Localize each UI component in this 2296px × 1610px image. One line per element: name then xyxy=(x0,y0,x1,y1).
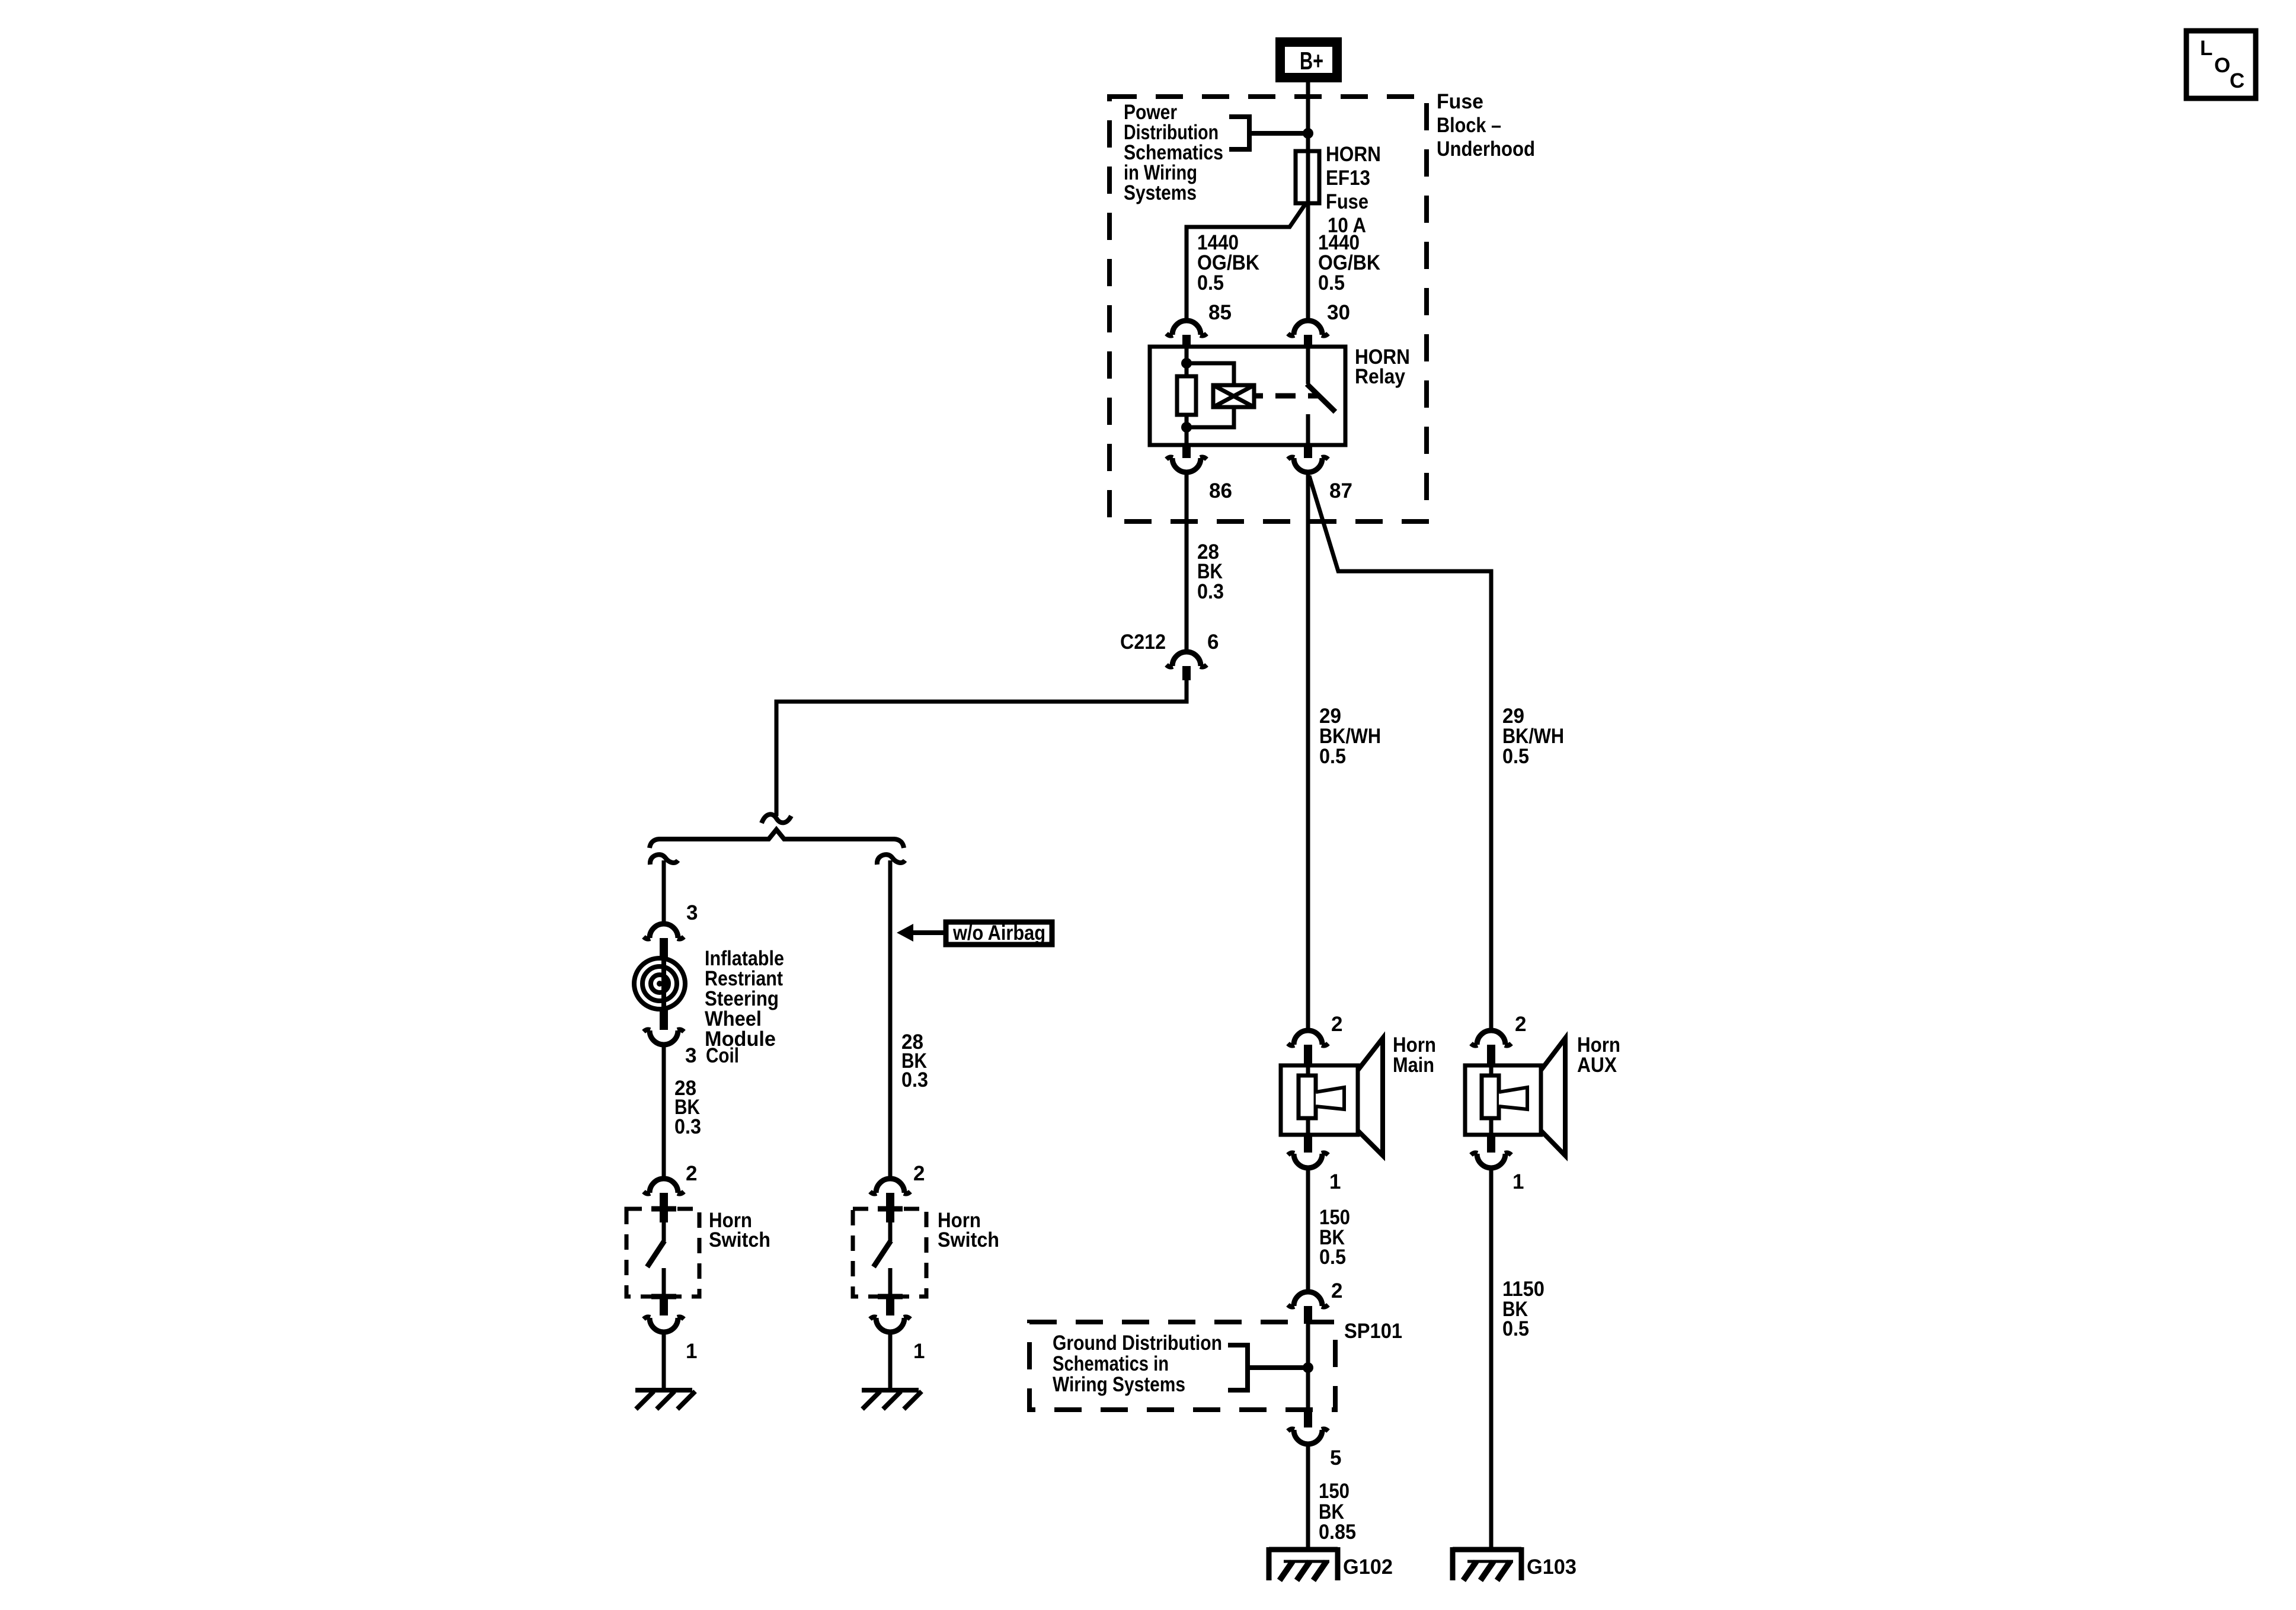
svg-text:3: 3 xyxy=(685,1044,696,1067)
svg-text:O: O xyxy=(2214,54,2230,77)
svg-text:1: 1 xyxy=(1512,1170,1524,1193)
svg-text:Fuse: Fuse xyxy=(1326,190,1368,213)
svg-text:B+: B+ xyxy=(1300,47,1323,75)
svg-text:Coil: Coil xyxy=(706,1044,739,1067)
svg-text:5: 5 xyxy=(1330,1446,1341,1470)
svg-text:6: 6 xyxy=(1207,630,1219,654)
svg-text:0.5: 0.5 xyxy=(1319,745,1346,768)
svg-text:Block –: Block – xyxy=(1437,114,1501,137)
svg-text:Underhood: Underhood xyxy=(1437,137,1535,161)
svg-text:AUX: AUX xyxy=(1577,1054,1617,1077)
svg-text:G102: G102 xyxy=(1343,1555,1393,1579)
svg-text:2: 2 xyxy=(913,1162,925,1185)
svg-text:0.3: 0.3 xyxy=(674,1115,701,1138)
svg-text:HORN: HORN xyxy=(1326,143,1381,166)
svg-text:2: 2 xyxy=(686,1162,697,1185)
svg-text:Relay: Relay xyxy=(1355,365,1405,388)
svg-text:2: 2 xyxy=(1331,1013,1342,1036)
svg-text:EF13: EF13 xyxy=(1326,167,1370,190)
svg-text:1: 1 xyxy=(1329,1170,1341,1193)
svg-text:1: 1 xyxy=(686,1340,697,1363)
svg-text:w/o Airbag: w/o Airbag xyxy=(952,921,1045,945)
svg-text:SP101: SP101 xyxy=(1344,1320,1402,1343)
svg-text:0.3: 0.3 xyxy=(901,1068,928,1092)
svg-text:30: 30 xyxy=(1327,301,1350,324)
svg-text:L: L xyxy=(2200,37,2212,60)
svg-text:2: 2 xyxy=(1515,1013,1526,1036)
svg-text:Ground Distribution: Ground Distribution xyxy=(1053,1331,1222,1355)
svg-text:Switch: Switch xyxy=(938,1228,999,1251)
svg-text:Schematics in: Schematics in xyxy=(1053,1352,1169,1375)
svg-text:0.5: 0.5 xyxy=(1318,271,1345,295)
svg-text:86: 86 xyxy=(1209,479,1232,502)
svg-text:Fuse: Fuse xyxy=(1437,90,1483,113)
svg-text:87: 87 xyxy=(1329,479,1352,502)
svg-text:Main: Main xyxy=(1393,1054,1434,1077)
svg-text:G103: G103 xyxy=(1527,1555,1576,1579)
svg-text:Systems: Systems xyxy=(1124,181,1197,204)
svg-text:C212: C212 xyxy=(1120,630,1166,654)
svg-text:Switch: Switch xyxy=(709,1228,770,1251)
svg-text:0.85: 0.85 xyxy=(1319,1521,1356,1544)
svg-text:150: 150 xyxy=(1319,1480,1350,1503)
svg-text:0.5: 0.5 xyxy=(1319,1246,1346,1269)
svg-text:1: 1 xyxy=(913,1340,925,1363)
svg-text:2: 2 xyxy=(1331,1279,1342,1302)
svg-text:0.5: 0.5 xyxy=(1502,745,1529,768)
svg-text:0.3: 0.3 xyxy=(1197,580,1224,603)
svg-text:85: 85 xyxy=(1208,301,1232,324)
svg-text:C: C xyxy=(2230,69,2244,92)
svg-text:0.5: 0.5 xyxy=(1502,1317,1529,1340)
svg-text:3: 3 xyxy=(686,901,698,924)
svg-text:0.5: 0.5 xyxy=(1197,271,1224,295)
svg-text:Wiring Systems: Wiring Systems xyxy=(1053,1373,1185,1396)
